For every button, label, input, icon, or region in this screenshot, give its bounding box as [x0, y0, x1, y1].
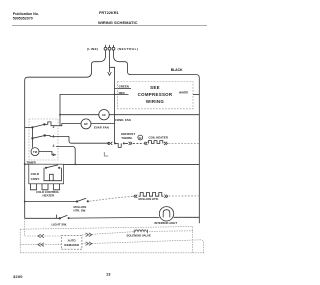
cold control switch	[45, 167, 47, 169]
icemaker return upper with solenoid	[82, 232, 135, 235]
title WIRING SCHEMATIC	[98, 20, 138, 25]
mullion heater switch	[76, 200, 78, 202]
svg-text:INTERIOR LIGHT: INTERIOR LIGHT	[155, 221, 178, 225]
defrost feed vertical from terminal 1	[69, 136, 109, 143]
mullion heater right chevrons	[164, 195, 167, 198]
label SOLENOID VALVE	[127, 233, 151, 237]
junction red/green crossing	[114, 94, 116, 96]
svg-text:BLACK: BLACK	[171, 68, 183, 72]
label COLD CONTROL HEATER	[36, 190, 60, 198]
defrost thermostat bimetal loop	[115, 143, 121, 147]
junction terminal 4 drop	[74, 164, 76, 166]
white wire stub	[193, 94, 199, 96]
label RED	[119, 91, 125, 95]
junction cond fan	[59, 114, 61, 116]
label (NEUTRAL)	[118, 47, 139, 51]
svg-text:(NEUTRAL): (NEUTRAL)	[118, 47, 139, 51]
label COND. FAN	[115, 118, 131, 122]
green wire from ground prong to compressor	[110, 67, 115, 143]
timer terminal numbers	[53, 125, 55, 157]
cold control box	[29, 164, 64, 184]
svg-text:HEATER: HEATER	[43, 193, 56, 197]
svg-text:Publication No.: Publication No.	[13, 12, 39, 16]
svg-text:CONT.: CONT.	[31, 177, 40, 181]
label COLD CONT.	[31, 172, 40, 181]
tap from light line	[24, 218, 26, 236]
svg-text:13: 13	[106, 271, 111, 276]
svg-text:EF: EF	[84, 122, 88, 126]
svg-text:(LINE): (LINE)	[87, 47, 99, 51]
svg-text:WIRING SCHEMATIC: WIRING SCHEMATIC	[98, 20, 138, 25]
svg-text:THERM.: THERM.	[121, 136, 132, 140]
water solenoid coil	[135, 230, 147, 232]
cold control heater element	[31, 184, 60, 190]
compressor box text	[138, 85, 173, 104]
defrost line dashed tail to neutral	[168, 142, 199, 144]
timer pivot bus	[31, 127, 33, 147]
icemaker return lower	[82, 240, 204, 253]
evap fan motor	[81, 119, 91, 129]
svg-text:4: 4	[53, 144, 55, 148]
defrost heater right chevrons	[164, 142, 167, 145]
solenoid left bar	[133, 230, 135, 234]
label COIL HEATER	[149, 135, 169, 139]
svg-text:3200: 3200	[13, 274, 23, 279]
svg-text:COND. FAN: COND. FAN	[115, 118, 131, 122]
icemaker circuit dashed boundary	[20, 218, 204, 252]
svg-text:SOLENOID VALVE: SOLENOID VALVE	[127, 233, 151, 237]
condenser fan line	[60, 114, 199, 116]
svg-text:COIL HEATER: COIL HEATER	[149, 135, 169, 139]
svg-text:5995352070: 5995352070	[13, 17, 33, 21]
svg-text:WIRING: WIRING	[146, 99, 164, 104]
bulb filament	[163, 210, 170, 218]
junction at rail	[24, 201, 26, 203]
wire: neutral side cord and right rail	[114, 50, 200, 223]
mullion heater element	[139, 193, 164, 197]
mullion heater dashed wire	[90, 196, 134, 201]
header rule	[12, 25, 207, 27]
label MULLION HTR.	[139, 197, 159, 201]
mullion heater left chevrons	[134, 195, 137, 198]
svg-text:2: 2	[53, 125, 55, 129]
svg-text:CF: CF	[102, 113, 106, 117]
svg-text:HTR. SW.: HTR. SW.	[74, 209, 87, 213]
publication number	[13, 12, 39, 20]
ground prong wire	[109, 50, 111, 72]
interior light line	[69, 216, 160, 219]
label INTERIOR LIGHT	[155, 221, 178, 225]
wire: line side cord and left rail	[25, 50, 106, 218]
auto icemaker box	[61, 236, 82, 250]
svg-text:GREEN: GREEN	[119, 85, 129, 89]
cold control bellows	[50, 174, 54, 180]
timer contact arm lower	[32, 136, 44, 139]
timer terminal 4 wire	[56, 146, 75, 164]
timer motor TM	[31, 148, 39, 156]
timer box	[29, 119, 58, 160]
interior light bulb	[159, 207, 173, 221]
svg-text:1: 1	[53, 135, 55, 139]
svg-text:WHITE: WHITE	[179, 91, 188, 95]
model number	[99, 10, 120, 15]
cold control switch frame	[44, 168, 62, 181]
svg-text:MULLION HTR.: MULLION HTR.	[139, 197, 159, 201]
svg-text:AUTO: AUTO	[68, 238, 77, 242]
label WHITE	[179, 91, 188, 95]
label DEFROST THERM.	[121, 132, 135, 140]
green wire stub into compressor box	[115, 87, 132, 89]
light switch line	[25, 217, 60, 219]
wire color label on neutral	[171, 68, 183, 72]
defrost coil heater element	[149, 141, 163, 144]
label (LINE)	[87, 47, 99, 51]
svg-text:SEE: SEE	[150, 85, 160, 90]
connector mark	[104, 152, 108, 156]
cold control supply from rail	[25, 163, 29, 165]
page number	[106, 271, 111, 276]
icemaker feed left lower	[20, 244, 61, 246]
svg-text:FRT22KR1: FRT22KR1	[99, 10, 120, 15]
svg-text:ICEMAKER: ICEMAKER	[64, 243, 79, 247]
defrost line to heater	[125, 142, 128, 144]
svg-text:COMPRESSOR: COMPRESSOR	[138, 92, 173, 97]
label MULLION HTR. SW.	[74, 205, 87, 213]
icemaker feed left upper	[25, 235, 62, 237]
timer terminal 2 jog wire	[44, 122, 56, 126]
date code	[13, 274, 23, 279]
mullion dashed tail to rail	[169, 195, 200, 197]
svg-text:COLD: COLD	[31, 172, 40, 176]
defrost thermostat terminal	[108, 142, 110, 144]
light switch	[59, 217, 61, 219]
connector chevrons	[129, 142, 132, 145]
timer contact arm upper	[32, 124, 44, 127]
light switch pole tick	[55, 215, 57, 219]
defrost heater left chevrons	[144, 142, 147, 145]
label EVAP. FAN	[94, 126, 109, 130]
evap fan line with terminal 2 jog	[56, 124, 115, 126]
condenser fan motor	[99, 110, 109, 120]
compressor box	[118, 82, 194, 109]
junction at rail	[24, 163, 26, 165]
label LIGHT SW.	[52, 222, 67, 226]
timer pivot dots	[31, 126, 33, 128]
mullion heater switch line	[25, 201, 77, 203]
ground arrowhead	[108, 72, 112, 75]
neutral return line to rail	[64, 163, 200, 165]
timer motor wire to terminal 3	[39, 152, 56, 155]
solenoid right bar	[146, 230, 148, 234]
icemaker connector arrows	[38, 233, 92, 247]
timer terminal 1 wire	[45, 135, 69, 138]
timer feed stub from rail	[25, 126, 33, 128]
power cord plug	[104, 45, 115, 50]
label GREEN	[119, 85, 129, 89]
red wire to compressor and timer feed vertical	[60, 94, 129, 125]
label TIMER	[27, 161, 37, 165]
connector H	[138, 135, 143, 140]
svg-text:LIGHT SW.: LIGHT SW.	[52, 222, 67, 226]
svg-text:EVAP. FAN: EVAP. FAN	[94, 126, 109, 130]
